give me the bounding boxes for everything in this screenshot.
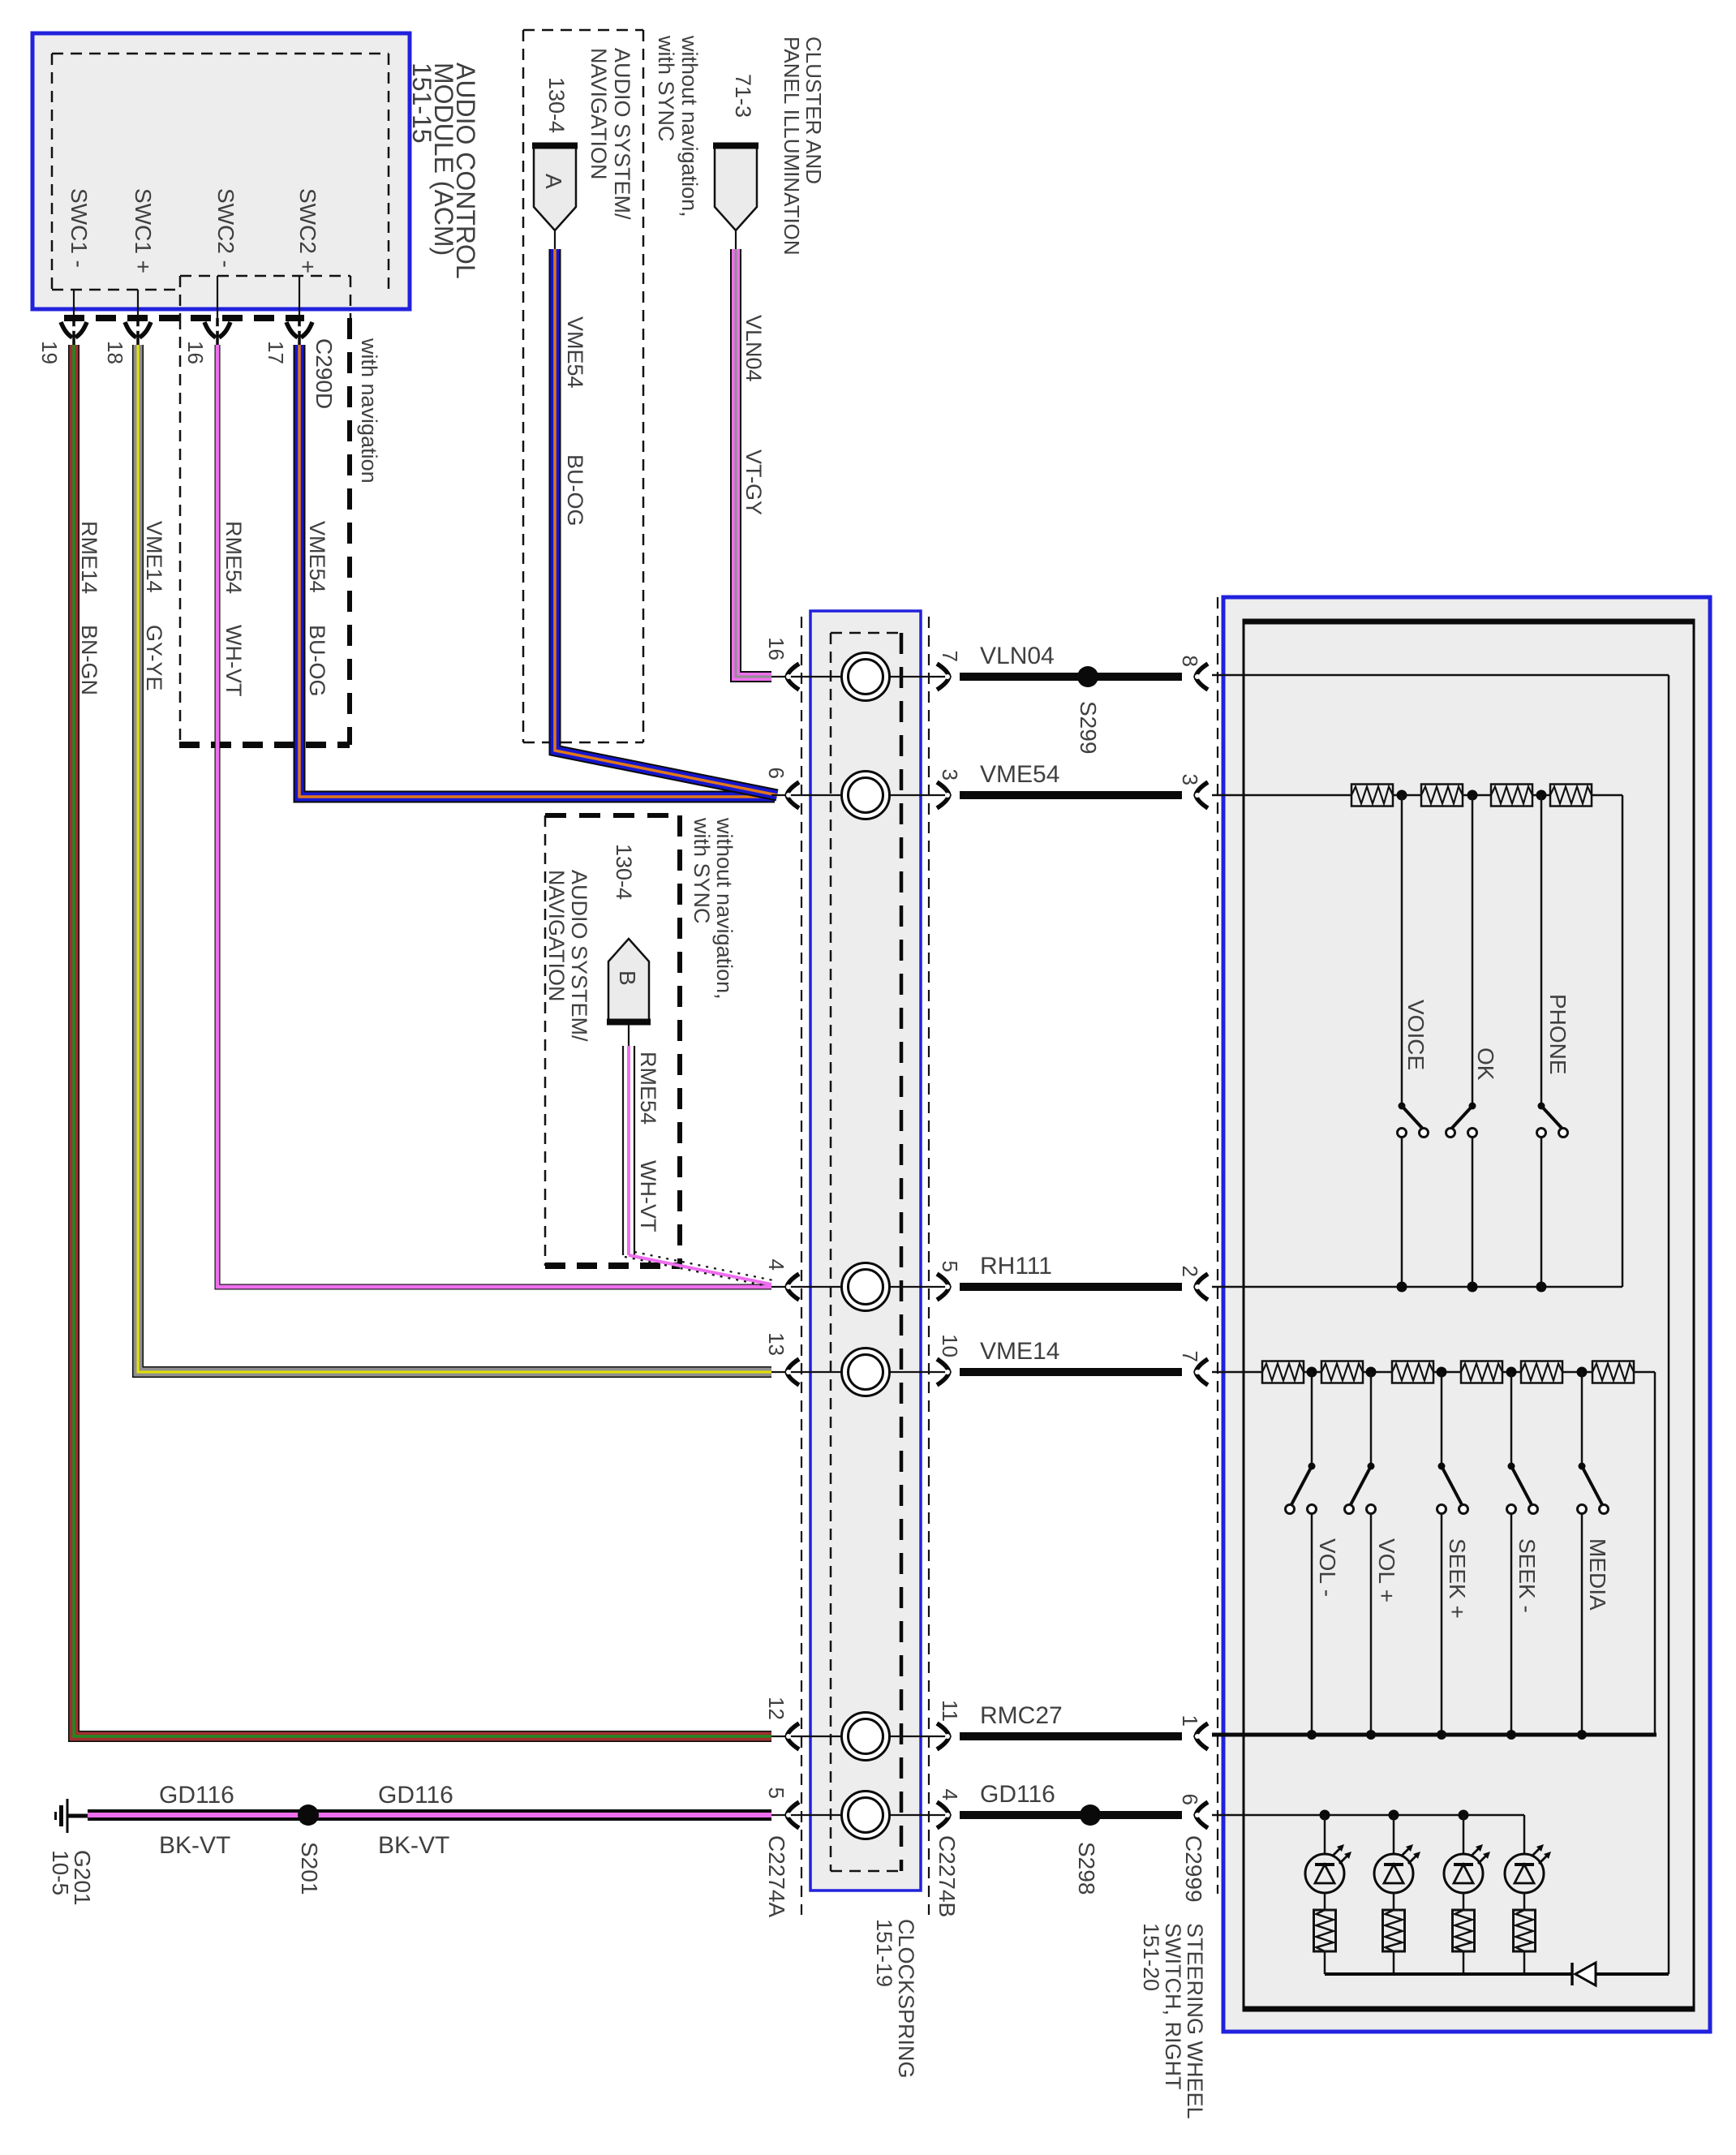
svg-text:151-20: 151-20 xyxy=(1139,1923,1163,1991)
resistor R2 (OK row) xyxy=(1421,785,1463,807)
label with navigation xyxy=(357,338,381,484)
audio system dashed box A xyxy=(523,30,643,742)
wire LED2 to anode bus xyxy=(1393,1951,1395,1974)
label WH-VT (B wire) xyxy=(636,1160,660,1232)
wire pin3 to resistor chain xyxy=(1212,794,1351,797)
wire LED3 to anode bus xyxy=(1463,1951,1465,1974)
svg-text:VT-GY: VT-GY xyxy=(741,449,766,515)
label STEERING WHEEL SWITCH RIGHT 151-20 xyxy=(1139,1923,1207,2119)
svg-text:C2274A: C2274A xyxy=(764,1835,789,1918)
junction OK bottom xyxy=(1467,1282,1478,1293)
wire VME54 (clockspring to steering wheel switch) xyxy=(960,791,1182,799)
resistor R14 (LED4) xyxy=(1514,1910,1536,1951)
label VLN04 (wire) xyxy=(741,315,766,382)
wire RME54 WH-VT from connector B xyxy=(623,1046,777,1286)
resistor R9 (MEDIA row) xyxy=(1521,1361,1562,1383)
label VT-GY (wire) xyxy=(741,449,766,515)
clockspring coil VME14 row xyxy=(771,1348,947,1396)
svg-text:5: 5 xyxy=(938,1261,962,1272)
svg-text:13: 13 xyxy=(764,1332,789,1356)
ACM pin label SWC2 + xyxy=(295,188,320,273)
ACM pin label SWC1 + xyxy=(131,188,156,273)
svg-text:VOL -: VOL - xyxy=(1315,1538,1340,1597)
wire LED1 to anode bus xyxy=(1324,1951,1326,1974)
svg-text:VLN04: VLN04 xyxy=(741,315,766,382)
audio system dashed box B xyxy=(545,815,680,1266)
resistor R6 (VOL+ row) xyxy=(1321,1361,1363,1383)
clockspring left pin 13 xyxy=(764,1332,799,1385)
svg-text:17: 17 xyxy=(264,341,288,364)
label CLOCKSPRING 151-19 xyxy=(872,1919,918,2079)
label RH111 xyxy=(980,1253,1052,1280)
label BU-OG xyxy=(305,625,329,697)
label VME14 xyxy=(980,1338,1059,1365)
svg-text:SEEK -: SEEK - xyxy=(1515,1538,1540,1613)
wire VME54 BU-OG (pin 17 to clockspring 6) xyxy=(299,345,775,797)
switch VOL + xyxy=(1345,1372,1376,1735)
svg-text:AUDIO SYSTEM/: AUDIO SYSTEM/ xyxy=(610,48,634,220)
junction MEDIA top xyxy=(1577,1367,1588,1378)
label PHONE xyxy=(1545,994,1571,1075)
ACM pin stub 19 xyxy=(73,290,75,325)
steering switch pin 7 xyxy=(1178,1351,1208,1385)
label VME54 xyxy=(980,761,1059,788)
svg-text:AUDIO SYSTEM/: AUDIO SYSTEM/ xyxy=(567,870,591,1042)
junction LED1 xyxy=(1320,1810,1330,1821)
clockspring left pin 4 xyxy=(764,1259,799,1300)
svg-text:5: 5 xyxy=(764,1787,789,1799)
label 71-3 xyxy=(731,74,755,118)
label VME54 (A wire) xyxy=(563,316,587,389)
LED anode bus xyxy=(1325,1972,1669,1976)
svg-text:RH111: RH111 xyxy=(980,1253,1052,1280)
svg-text:11: 11 xyxy=(938,1700,962,1722)
label WH-VT xyxy=(221,625,246,696)
svg-text:SWC2 -: SWC2 - xyxy=(213,188,238,268)
switch VOICE xyxy=(1398,795,1429,1287)
svg-text:GD116: GD116 xyxy=(159,1782,234,1809)
label VOICE xyxy=(1403,1000,1429,1070)
LED D3 xyxy=(1444,1815,1490,1910)
switch VOL - xyxy=(1286,1372,1317,1735)
label SEEK + xyxy=(1445,1538,1470,1619)
svg-text:4: 4 xyxy=(938,1789,962,1800)
junction SEEK - bottom xyxy=(1506,1730,1516,1740)
svg-text:C2999: C2999 xyxy=(1181,1835,1206,1903)
switch MEDIA xyxy=(1578,1372,1609,1735)
wire R3-R4 xyxy=(1532,794,1550,797)
svg-text:19: 19 xyxy=(37,341,62,364)
resistor R8 (SEEK- row) xyxy=(1461,1361,1502,1383)
svg-text:VME54: VME54 xyxy=(563,316,587,389)
wire after R10 xyxy=(1634,1372,1655,1735)
svg-text:CLUSTER AND: CLUSTER AND xyxy=(801,37,826,184)
svg-text:OK: OK xyxy=(1473,1047,1498,1081)
svg-text:WH-VT: WH-VT xyxy=(636,1160,660,1232)
wire RME14 BN-GN (pin 19 to clockspring 12) xyxy=(74,345,771,1736)
label AUDIO SYSTEM NAVIGATION (B) xyxy=(544,870,591,1042)
label VLN04 xyxy=(980,643,1055,669)
wire pin2 bus xyxy=(1212,1286,1622,1288)
svg-text:7: 7 xyxy=(938,651,962,662)
resistor R12 (LED2) xyxy=(1383,1910,1405,1951)
svg-text:SWC1 -: SWC1 - xyxy=(67,188,92,268)
junction PHONE top xyxy=(1536,790,1547,801)
ground G201 xyxy=(56,1799,90,1833)
connector C2274B dashed line xyxy=(928,617,930,1915)
svg-text:SEEK +: SEEK + xyxy=(1445,1538,1470,1619)
wire R8-R9 xyxy=(1502,1371,1521,1374)
svg-text:with SYNC: with SYNC xyxy=(654,35,678,142)
steering switch pin 8 xyxy=(1178,656,1208,690)
svg-text:STEERING WHEEL: STEERING WHEEL xyxy=(1183,1923,1207,2119)
steering switch pin 1 xyxy=(1178,1715,1208,1749)
svg-text:6: 6 xyxy=(1178,1794,1202,1805)
svg-text:without navigation,: without navigation, xyxy=(712,817,737,1000)
svg-text:4: 4 xyxy=(764,1259,789,1271)
label VOL + xyxy=(1374,1538,1399,1602)
label OK xyxy=(1473,1047,1498,1081)
svg-text:RME54: RME54 xyxy=(221,521,246,594)
svg-text:RME54: RME54 xyxy=(636,1052,660,1125)
label GD116 (right) xyxy=(378,1782,453,1809)
label 130-4 (B) xyxy=(612,844,636,900)
svg-text:BN-GN: BN-GN xyxy=(77,625,101,695)
clockspring right pin 4 xyxy=(937,1789,962,1828)
ACM pin stub 17 xyxy=(299,276,300,325)
label C2274A xyxy=(764,1835,789,1918)
junction SEEK + top xyxy=(1437,1367,1447,1378)
svg-text:10-5: 10-5 xyxy=(48,1850,73,1895)
svg-text:6: 6 xyxy=(764,768,789,779)
clockspring left pin 12 xyxy=(764,1697,799,1749)
svg-text:B: B xyxy=(615,970,640,986)
svg-text:BU-OG: BU-OG xyxy=(305,625,329,697)
label BN-GN xyxy=(77,625,101,695)
steering switch pin 2 xyxy=(1178,1266,1208,1300)
label BU-OG (A wire) xyxy=(563,454,587,527)
wire pin1 bus RMC27 xyxy=(1212,1733,1657,1737)
label BK-VT (left) xyxy=(159,1832,230,1859)
wire R1-R2 xyxy=(1393,794,1421,797)
clockspring coil GD116 row xyxy=(771,1792,947,1839)
svg-text:BU-OG: BU-OG xyxy=(563,454,587,527)
wire R7-R8 xyxy=(1433,1371,1461,1374)
svg-text:VOL +: VOL + xyxy=(1374,1538,1399,1602)
wire VME54 BU-OG from connector A xyxy=(555,249,777,795)
wire RMC27 (clockspring to steering wheel switch) xyxy=(960,1732,1182,1740)
connector C2999 dashed line xyxy=(1217,597,1218,1894)
svg-text:S298: S298 xyxy=(1074,1842,1099,1895)
svg-text:3: 3 xyxy=(1178,774,1202,785)
junction PHONE bottom xyxy=(1536,1282,1547,1293)
junction OK top xyxy=(1467,790,1478,801)
switch PHONE xyxy=(1537,795,1568,1287)
wire pin8 to LED anode bus xyxy=(1212,675,1669,1974)
svg-text:VME14: VME14 xyxy=(980,1338,1059,1365)
label C2999 xyxy=(1181,1835,1206,1903)
connector A xyxy=(532,144,578,249)
resistor R5 (VOL- row) xyxy=(1262,1361,1304,1383)
ACM title AUDIO CONTROL MODULE (ACM) 151-15 xyxy=(407,62,480,279)
svg-text:S299: S299 xyxy=(1076,701,1101,754)
svg-text:PANEL ILLUMINATION: PANEL ILLUMINATION xyxy=(780,37,804,256)
label CLUSTER AND PANEL ILLUMINATION xyxy=(780,37,826,256)
clockspring right pin 10 xyxy=(937,1334,962,1385)
clockspring coil VME54 row xyxy=(771,772,947,819)
with-navigation option dashed box xyxy=(179,318,350,745)
wire GD116 (clockspring to steering wheel switch) xyxy=(960,1811,1182,1819)
svg-text:VME14: VME14 xyxy=(142,521,166,593)
junction VOL - top xyxy=(1307,1367,1317,1378)
LED D1 xyxy=(1305,1815,1351,1910)
resistor R3 (PHONE row) xyxy=(1491,785,1532,807)
ACM inner dashed box (with navigation section) xyxy=(180,276,350,318)
clockspring right pin 7 xyxy=(937,651,962,690)
wire VLN04 VT-GY (to clockspring 16) xyxy=(736,249,771,677)
svg-text:C2274B: C2274B xyxy=(935,1835,960,1917)
svg-text:A: A xyxy=(541,174,566,189)
connector C290D dashed line xyxy=(64,315,304,321)
clockspring coil RH111 row xyxy=(771,1263,947,1311)
junction VOL + bottom xyxy=(1366,1730,1376,1740)
svg-text:VLN04: VLN04 xyxy=(980,643,1055,669)
label C290D xyxy=(312,338,337,409)
wire VLN04 (clockspring to steering wheel switch) xyxy=(960,673,1182,681)
svg-text:3: 3 xyxy=(938,769,962,781)
label RME54 xyxy=(221,521,246,594)
svg-text:with SYNC: with SYNC xyxy=(690,817,714,924)
svg-text:MEDIA: MEDIA xyxy=(1585,1538,1610,1611)
label without navigation with SYNC (B) xyxy=(690,817,737,1000)
wire VME14 (clockspring to steering wheel switch) xyxy=(960,1368,1182,1376)
svg-text:VOICE: VOICE xyxy=(1403,1000,1429,1070)
junction VOL + top xyxy=(1366,1367,1377,1378)
svg-text:2: 2 xyxy=(1178,1266,1202,1277)
resistor R7 (SEEK+ row) xyxy=(1392,1361,1433,1383)
module ACM box (AUDIO CONTROL MODULE) xyxy=(32,33,410,309)
svg-text:7: 7 xyxy=(1178,1351,1202,1362)
clockspring right pin 11 xyxy=(937,1700,962,1749)
svg-text:VME54: VME54 xyxy=(980,761,1059,788)
label AUDIO SYSTEM/NAVIGATION (A) xyxy=(587,48,634,220)
ACM pin stub 16 xyxy=(217,276,218,325)
resistor R13 (LED3) xyxy=(1453,1910,1475,1951)
connector 71-3 xyxy=(713,144,758,249)
pin 17 xyxy=(264,341,288,364)
wire R2-R3 xyxy=(1462,794,1491,797)
svg-text:SWC1 +: SWC1 + xyxy=(131,188,156,273)
label 130-4 (A) xyxy=(544,77,569,133)
svg-text:151-15: 151-15 xyxy=(407,62,436,144)
svg-text:without navigation,: without navigation, xyxy=(677,35,702,217)
svg-text:151-19: 151-19 xyxy=(872,1919,896,1987)
svg-text:RMC27: RMC27 xyxy=(980,1702,1063,1729)
svg-text:1: 1 xyxy=(1178,1715,1202,1727)
svg-text:8: 8 xyxy=(1178,656,1202,667)
svg-text:10: 10 xyxy=(938,1334,962,1357)
svg-text:SWITCH, RIGHT: SWITCH, RIGHT xyxy=(1161,1923,1185,2089)
clockspring coil RMC27 row xyxy=(771,1713,947,1761)
clockspring left pin 16 xyxy=(764,637,799,690)
svg-text:S201: S201 xyxy=(297,1842,322,1895)
ACM pin label SWC2 - xyxy=(213,188,238,268)
label MEDIA xyxy=(1585,1538,1610,1611)
pin 18 xyxy=(103,341,127,364)
label GD116 xyxy=(980,1781,1055,1808)
svg-text:NAVIGATION: NAVIGATION xyxy=(587,48,611,180)
label GD116 (left) xyxy=(159,1782,234,1809)
connector pin symbol 18 xyxy=(125,318,151,346)
svg-text:RME14: RME14 xyxy=(77,521,101,594)
LED D4 xyxy=(1505,1815,1551,1910)
resistor R4 xyxy=(1550,785,1592,807)
label BK-VT (right) xyxy=(378,1832,449,1859)
label GY-YE xyxy=(142,625,166,691)
splice S299 xyxy=(1076,666,1101,754)
svg-text:SWC2 +: SWC2 + xyxy=(295,188,320,273)
svg-text:GD116: GD116 xyxy=(378,1782,453,1809)
connector pin symbol 17 xyxy=(286,318,312,346)
wire RH111 (clockspring to steering wheel switch) xyxy=(960,1283,1182,1291)
LED D2 xyxy=(1374,1815,1420,1910)
steering switch pin 6 xyxy=(1178,1794,1208,1828)
svg-text:12: 12 xyxy=(764,1697,789,1720)
clockspring left pin 6 xyxy=(764,768,799,808)
label RMC27 xyxy=(980,1702,1063,1729)
svg-text:18: 18 xyxy=(103,341,127,364)
junction SEEK - top xyxy=(1506,1367,1517,1378)
junction MEDIA bottom xyxy=(1577,1730,1587,1740)
wire LED4 to anode bus xyxy=(1523,1951,1526,1974)
resistor R10 xyxy=(1592,1361,1634,1383)
clockspring right pin 5 xyxy=(937,1261,962,1300)
label VME54 xyxy=(305,521,329,593)
ACM pin stub 18 xyxy=(137,290,139,325)
resistor R1 (VOICE row) xyxy=(1351,785,1393,807)
wire R6-R7 xyxy=(1363,1371,1392,1374)
steering switch pin 3 xyxy=(1178,774,1208,808)
clockspring left pin 5 xyxy=(764,1787,799,1828)
svg-text:VME54: VME54 xyxy=(305,521,329,593)
label C2274B xyxy=(935,1835,960,1917)
splice S201 xyxy=(297,1804,322,1895)
svg-text:GY-YE: GY-YE xyxy=(142,625,166,691)
pin 19 xyxy=(37,341,62,364)
connector pin symbol 16 xyxy=(204,318,230,346)
wire RME54 WH-VT (pin 16 to clockspring 4) xyxy=(217,345,771,1287)
junction SEEK + bottom xyxy=(1437,1730,1446,1740)
resistor R11 (LED1) xyxy=(1314,1910,1336,1951)
wire GD116 BK-VT (ground to clockspring 5) xyxy=(88,1809,771,1821)
switch SEEK - xyxy=(1507,1372,1538,1735)
pin 16 xyxy=(183,341,208,364)
label SEEK - xyxy=(1515,1538,1540,1613)
svg-text:CLOCKSPRING: CLOCKSPRING xyxy=(894,1919,918,2079)
label G201 10-5 xyxy=(48,1850,95,1906)
svg-text:71-3: 71-3 xyxy=(731,74,755,118)
svg-text:GD116: GD116 xyxy=(980,1781,1055,1808)
junction LED3 xyxy=(1459,1810,1469,1821)
svg-text:BK-VT: BK-VT xyxy=(159,1832,230,1859)
svg-text:16: 16 xyxy=(764,637,789,660)
junction VOICE bottom xyxy=(1397,1282,1407,1293)
svg-text:PHONE: PHONE xyxy=(1545,994,1571,1075)
svg-text:16: 16 xyxy=(183,341,208,364)
svg-text:with navigation: with navigation xyxy=(357,338,381,484)
connector pin symbol 19 xyxy=(61,318,87,346)
label VME14 xyxy=(142,521,166,593)
connector C2274A dashed line xyxy=(801,617,802,1915)
wire after R4 xyxy=(1592,795,1622,1287)
svg-text:WH-VT: WH-VT xyxy=(221,625,246,696)
clockspring box xyxy=(810,611,921,1890)
connector B xyxy=(607,939,651,1046)
wire pin6 LED cathode bus xyxy=(1212,1814,1524,1817)
clockspring right pin 3 xyxy=(937,769,962,808)
splice S298 xyxy=(1074,1804,1101,1895)
svg-text:NAVIGATION: NAVIGATION xyxy=(544,870,569,1002)
diode D5 xyxy=(1572,1963,1596,1985)
label without navigation with SYNC (top) xyxy=(654,35,702,217)
wire R9-R10 xyxy=(1562,1371,1592,1374)
svg-text:C290D: C290D xyxy=(312,338,337,409)
junction VOICE top xyxy=(1397,790,1407,801)
svg-text:BK-VT: BK-VT xyxy=(378,1832,449,1859)
ACM pin label SWC1 - xyxy=(67,188,92,268)
junction LED2 xyxy=(1389,1810,1399,1821)
wire VME14 GY-YE (pin 18 to clockspring 13) xyxy=(138,345,771,1372)
wire pin7 to resistor chain xyxy=(1212,1371,1262,1374)
junction VOL - bottom xyxy=(1307,1730,1317,1740)
wire R5-R6 xyxy=(1304,1371,1321,1374)
label VOL - xyxy=(1315,1538,1340,1597)
switch SEEK + xyxy=(1437,1372,1468,1735)
label RME54 (B wire) xyxy=(636,1052,660,1125)
steering wheel switch box xyxy=(1223,597,1710,2032)
switch OK xyxy=(1446,795,1477,1287)
svg-text:130-4: 130-4 xyxy=(612,844,636,900)
label RME14 xyxy=(77,521,101,594)
svg-text:130-4: 130-4 xyxy=(544,77,569,133)
clockspring coil VLN04 row xyxy=(771,653,947,701)
